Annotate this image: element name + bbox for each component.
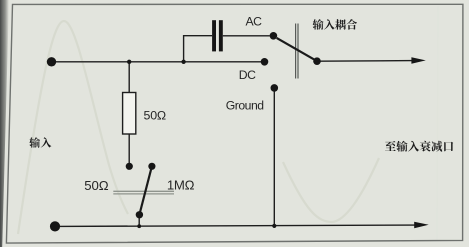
capacitor AC coupling plate 2: [219, 20, 223, 51]
junction dot on return bus: [137, 224, 141, 228]
return bus terminal dot: [50, 221, 60, 231]
arrowhead to attenuator (bottom): [414, 222, 429, 228]
wire: switch lever output to attenuator: [317, 60, 413, 63]
contact dot Ground: [271, 84, 279, 92]
impedance switch lever: [140, 169, 152, 214]
resistor R 50ohm: [123, 93, 136, 135]
wire: ground contact drop: [273, 91, 275, 226]
svg-text:50Ω: 50Ω: [144, 108, 166, 122]
svg-text:1MΩ: 1MΩ: [167, 177, 195, 192]
capacitor AC coupling plate 1: [212, 20, 216, 51]
svg-text:DC: DC: [239, 68, 256, 82]
junction dot at resistor branch: [127, 60, 131, 64]
contact dot AC: [270, 32, 278, 40]
coupling switch lever: [277, 38, 315, 60]
arrowhead to attenuator (top): [411, 57, 425, 64]
label shuru-ouhe (input coupling) CJK: [313, 19, 357, 30]
wire: capacitor branch riser: [184, 36, 213, 62]
junction dot ground-return: [272, 224, 276, 228]
left page edge shadow: [0, 0, 9, 247]
wire: bottom return bus: [55, 225, 416, 226]
wire: resistor branch drop: [128, 62, 130, 93]
coupling switch wafer (vertical pair): [296, 24, 298, 79]
background waveform arch: [18, 21, 128, 234]
background waveform trough: [283, 158, 379, 222]
svg-text:Ground: Ground: [226, 99, 264, 113]
impedance switch pole dot: [136, 211, 143, 218]
label zhi-shuru-shuaijiankou (to input attenuator port) CJK: [385, 141, 453, 152]
input terminal dot: [47, 57, 56, 66]
svg-text:AC: AC: [246, 15, 263, 29]
impedance switch wafer (horizontal pair): [113, 191, 174, 194]
svg-text:50Ω: 50Ω: [84, 178, 108, 193]
wire: capacitor to AC contact: [223, 35, 270, 37]
wire: main input bus: [52, 61, 265, 63]
junction dot at capacitor branch: [181, 60, 185, 64]
wire: resistor to switch contact: [128, 134, 130, 164]
contact dot DC: [261, 58, 269, 66]
page crease: [437, 6, 438, 240]
coupling switch pole dot: [313, 57, 321, 65]
impedance switch contact dot 1Mohm: [148, 163, 155, 170]
label shuru (input) CJK: [29, 137, 51, 147]
wire: lever bottom to return bus: [138, 217, 140, 227]
impedance switch contact dot 50ohm: [126, 163, 133, 170]
